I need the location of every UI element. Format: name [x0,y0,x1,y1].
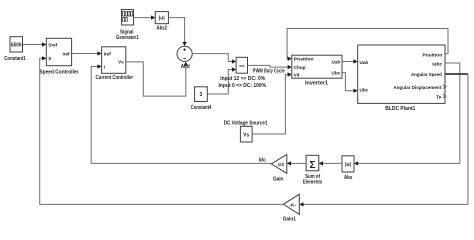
source block Signal Generator1 [122,10,134,26]
svg-text:Angular Speed: Angular Speed [411,72,442,77]
wire Inverter1 Uab to BLDC Plant1 Uab [342,59,358,63]
wire Speed Controller Iref to Current Controller Iref [72,51,102,55]
svg-text:Position: Position [294,57,314,62]
svg-text:I: I [104,64,105,69]
source block DC Voltage Source1 [240,126,252,142]
wire relational operator to Inverter1 Chop with net label PWM Duty Cycle [248,65,292,74]
svg-text:-K-: -K- [289,202,296,208]
wire BLDC Plant1 Iabc to Abs [354,63,460,166]
abs block Abs [342,156,354,172]
svg-text:Iref: Iref [104,51,112,56]
svg-text:1/2: 1/2 [277,162,284,168]
svg-text:Iabc: Iabc [432,61,442,66]
constant block Constant1 [10,37,23,52]
wire Gain output Idc to Current Controller I input [91,64,271,163]
sum block Add [177,46,192,61]
svg-text:Uab: Uab [360,60,369,65]
wire Abs2 to Add plus input [168,18,186,46]
wire Inverter1 Ubc to BLDC Plant1 Ubc [342,73,358,93]
subsystem Speed Controller [46,38,71,65]
svg-text:Abs2: Abs2 [157,26,168,32]
subsystem Inverter1 [292,55,342,78]
svg-text:Speed Controller: Speed Controller [39,70,78,76]
svg-text:Sref: Sref [48,43,57,48]
svg-text:Gain: Gain [273,177,284,183]
wire Sum of Elements to Gain [287,161,306,165]
relational operator block [236,57,247,73]
svg-text:Uab: Uab [332,60,341,65]
subsystem BLDC Plant1 [358,45,445,103]
svg-text:Current Controller: Current Controller [96,75,134,81]
wire Abs to Sum of Elements [319,161,342,165]
abs block Abs2 [155,12,168,24]
wire DC Voltage Source1 to Inverter1 Vd [252,72,292,134]
svg-text:|u|: |u| [159,16,165,22]
wire Constant4 to relational operator input 2 [207,67,236,94]
svg-text:Inverter1: Inverter1 [305,80,328,86]
svg-text:Ubc: Ubc [332,71,341,76]
svg-text:|u|: |u| [345,162,351,168]
label Sum of Elements [303,174,323,185]
svg-text:Position: Position [422,52,442,57]
subsystem Current Controller [102,47,126,74]
wire Add to relational operator input 1 [192,54,236,64]
svg-text:>=: >= [239,63,245,69]
wire Current Controller Vs to Add minus input [126,62,188,97]
svg-text:Gain1: Gain1 [283,216,296,222]
svg-text:Ubc: Ubc [360,88,369,93]
svg-text:S: S [48,56,51,61]
svg-text:DC Voltage Source1: DC Voltage Source1 [224,120,268,126]
svg-text:Elements: Elements [303,179,323,185]
svg-text:Vd: Vd [294,73,300,78]
label Signal Generator1 [116,30,139,41]
gain block Gain (1/2, points left) [271,155,287,174]
gain block Gain1 (-K-, points left) [283,194,299,214]
svg-text:Idc: Idc [259,157,266,163]
svg-text:Generator1: Generator1 [116,35,139,41]
wire Signal Generator1 to Abs2 [134,15,156,19]
unconnected output marker Te [443,94,446,98]
sum block Sum of Elements [306,155,319,171]
svg-text:Chop: Chop [294,65,306,70]
svg-text:Te: Te [436,94,441,99]
svg-text:Σ: Σ [309,160,315,171]
svg-text:Constant4: Constant4 [191,105,212,111]
svg-text:3: 3 [200,92,203,98]
svg-text:Input 12 => DC: 0%: Input 12 => DC: 0% [220,76,265,82]
wire Constant1 to Speed Controller Sref [23,42,47,46]
wire BLDC Plant1 Position feedback to Inverter1 Position [287,29,448,61]
svg-text:Abs: Abs [344,175,353,181]
svg-text:Vs: Vs [243,133,249,139]
svg-text:Input 0 => DC: 100%: Input 0 => DC: 100% [219,83,267,89]
svg-text:6500: 6500 [11,43,22,49]
svg-text:Iref: Iref [62,51,70,56]
svg-text:PWM Duty Cycle: PWM Duty Cycle [253,68,285,74]
svg-text:Vs: Vs [118,60,124,65]
svg-text:BLDC Plant1: BLDC Plant1 [385,106,415,112]
constant block Constant4 [195,87,208,102]
wire Gain1 output to Speed Controller S input [40,56,284,204]
unconnected output marker Angular Displacement [443,85,446,89]
wire BLDC Plant1 Angular Speed to Gain1 (thick stub) [299,74,468,207]
svg-text:Angular Displacement: Angular Displacement [393,85,441,90]
svg-text:Constant1: Constant1 [4,56,26,62]
